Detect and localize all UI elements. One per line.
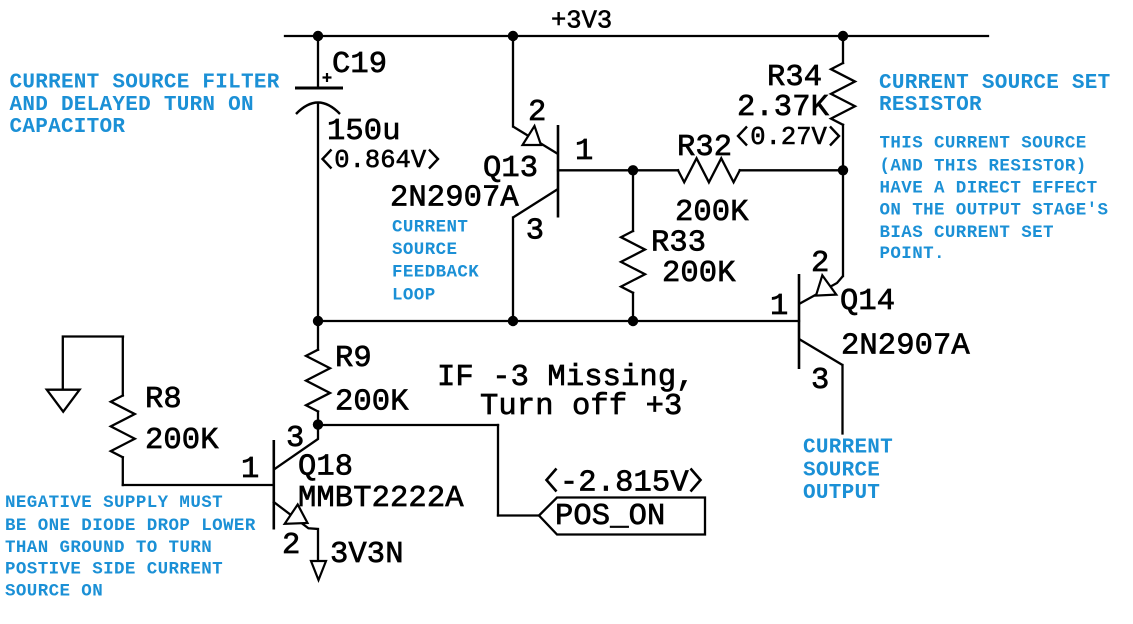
svg-text:1: 1 [770,290,788,324]
svg-text:HAVE A DIRECT EFFECT: HAVE A DIRECT EFFECT [880,179,1098,199]
wire POS_ON horizontal [318,424,498,426]
svg-text:200K: 200K [662,257,736,291]
transistor Q14 2N2907A [799,274,843,369]
resistor R9 [306,321,330,425]
junction R32/R33 node [628,165,638,175]
svg-text:R32: R32 [677,131,732,165]
svg-text:ON THE OUTPUT STAGE'S: ON THE OUTPUT STAGE'S [880,201,1109,221]
capacitor C19 [295,73,343,114]
svg-text:OUTPUT: OUTPUT [803,482,880,505]
svg-text:(AND THIS RESISTOR): (AND THIS RESISTOR) [880,157,1087,177]
annotation current source filter [10,72,280,140]
wire Q13 collector vertical [512,218,514,322]
svg-text:2N2907A: 2N2907A [841,330,970,364]
svg-text:150u: 150u [327,115,401,149]
svg-text:CAPACITOR: CAPACITOR [10,116,126,139]
wire Q18 base [123,484,274,486]
svg-text:3V3N: 3V3N [330,538,404,572]
junction mid rail at C19/R9 [313,316,323,326]
svg-text:BE ONE DIODE DROP LOWER: BE ONE DIODE DROP LOWER [5,516,256,536]
svg-text:Q14: Q14 [840,285,895,319]
annotation negative supply note [5,493,256,602]
svg-text:CURRENT: CURRENT [803,437,893,460]
svg-text:POS_ON: POS_ON [555,500,665,534]
svg-text:-2.815V: -2.815V [542,467,708,501]
svg-text:1: 1 [575,135,593,169]
svg-text:3: 3 [811,364,829,398]
resistor R8 [111,337,135,485]
wire POS_ON stub [498,514,539,516]
junction R9/Q18 collector node [313,419,323,429]
svg-text:R33: R33 [651,227,706,261]
annotation current source set resistor [879,72,1111,117]
junction mid rail at Q13 collector [508,316,518,326]
svg-text:THAN GROUND TO TURN: THAN GROUND TO TURN [5,538,212,558]
wire Q14 collector output [841,365,843,434]
junction on rail at C19 [313,31,323,41]
svg-text:MMBT2222A: MMBT2222A [298,482,464,516]
wire C19 bottom lead [317,104,319,321]
resistor R33 [621,170,645,321]
junction R32/R34/Q14 node [838,165,848,175]
svg-text:2.37K: 2.37K [737,91,830,125]
wire +3V3 top rail [285,35,988,37]
annotation current source feedback loop [392,217,479,305]
svg-text:2: 2 [282,529,300,563]
resistor R34 [831,36,855,170]
svg-text:R34: R34 [767,61,822,95]
svg-text:R8: R8 [145,383,182,417]
svg-text:SOURCE: SOURCE [392,240,457,260]
junction mid rail at R33 [628,316,638,326]
annotation current source output [803,437,893,506]
svg-text:1: 1 [241,453,259,487]
svg-text:BIAS CURRENT SET: BIAS CURRENT SET [880,223,1054,243]
svg-text:0.27V: 0.27V [735,123,842,152]
svg-text:THIS CURRENT SOURCE: THIS CURRENT SOURCE [880,134,1087,154]
transistor Q18 MMBT2222A [274,425,318,561]
junction on rail at Q13 emitter [508,31,518,41]
svg-text:NEGATIVE SUPPLY MUST: NEGATIVE SUPPLY MUST [5,493,223,513]
wire POS_ON vertical [497,425,499,516]
svg-text:CURRENT: CURRENT [392,217,468,237]
svg-text:2N2907A: 2N2907A [390,182,519,216]
resistor R32 [633,158,843,182]
svg-text:0.864V: 0.864V [319,146,441,175]
svg-text:POINT.: POINT. [880,244,945,264]
net flag POS_ON [539,498,705,535]
wire C19 top lead [317,36,319,87]
svg-text:POSTIVE SIDE CURRENT: POSTIVE SIDE CURRENT [5,560,223,580]
svg-text:200K: 200K [335,386,409,420]
svg-text:SOURCE ON: SOURCE ON [5,581,103,601]
svg-text:RESISTOR: RESISTOR [879,94,982,117]
transistor Q13 2N2907A [513,125,558,218]
svg-text:CURRENT SOURCE SET: CURRENT SOURCE SET [879,72,1111,95]
svg-text:C19: C19 [332,48,387,82]
svg-text:Q18: Q18 [298,451,353,485]
junction on rail at R34 [838,31,848,41]
svg-text:FEEDBACK: FEEDBACK [392,263,479,283]
svg-text:Turn off +3: Turn off +3 [480,390,682,424]
annotation this current source [880,134,1109,264]
wire mid rail [318,320,799,322]
svg-text:3: 3 [526,215,544,249]
wire Q13 emitter vertical [512,36,514,127]
svg-text:2: 2 [811,247,829,281]
svg-text:SOURCE: SOURCE [803,460,880,483]
svg-text:200K: 200K [145,424,219,458]
svg-text:AND DELAYED TURN ON: AND DELAYED TURN ON [10,94,254,117]
svg-text:LOOP: LOOP [392,285,436,305]
svg-text:+3V3: +3V3 [551,7,612,36]
svg-text:CURRENT SOURCE FILTER: CURRENT SOURCE FILTER [10,72,280,95]
wire Q14 emitter vertical [842,170,844,276]
svg-text:200K: 200K [675,196,749,230]
wire Q13 base [558,169,633,171]
ground symbol [47,337,123,412]
svg-text:2: 2 [528,96,546,130]
power symbol 3V3N [311,561,326,580]
svg-text:R9: R9 [335,342,372,376]
